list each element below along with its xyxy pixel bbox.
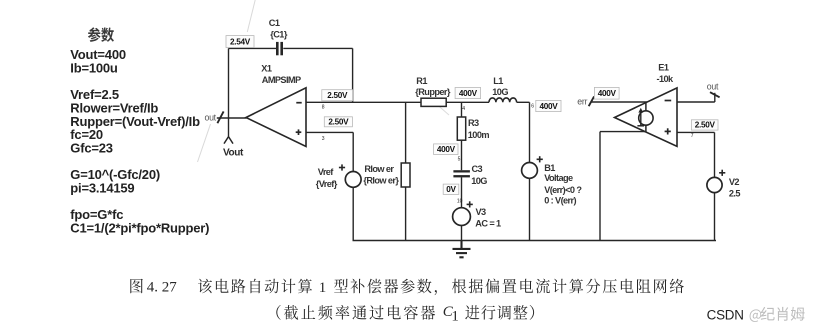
op-amp E1 triangle: [615, 88, 678, 146]
svg-text:AC = 1: AC = 1: [475, 219, 501, 229]
svg-text:400V: 400V: [459, 89, 478, 98]
svg-text:10G: 10G: [471, 176, 487, 186]
svg-text:10G: 10G: [492, 87, 508, 97]
svg-text:V3: V3: [476, 207, 487, 217]
wire E1 - output to out: [677, 101, 715, 103]
node label 400V (after R1): [455, 88, 481, 99]
node label 400V (err node): [594, 87, 619, 99]
wire E1 + to V2 corner: [677, 131, 715, 133]
wire R3 top: [461, 102, 463, 117]
node label 400V (R3 bottom): [434, 144, 458, 155]
Vref + polarity: [339, 164, 345, 170]
wire Vref to rail: [352, 187, 354, 240]
node label 2.50V (E1 + input): [691, 120, 718, 130]
svg-text:{Rlow er}: {Rlow er}: [363, 176, 399, 186]
wire E1 + left segment: [600, 131, 646, 133]
node label 2.54V: [226, 36, 254, 48]
out node tick (X1): [217, 111, 223, 123]
svg-text:R1: R1: [416, 76, 427, 86]
svg-text:AMPSIMP: AMPSIMP: [262, 75, 301, 85]
wire out node vertical: [228, 48, 230, 136]
svg-text:2.54V: 2.54V: [230, 37, 251, 46]
svg-text:Vout: Vout: [223, 147, 244, 158]
caption run 型补偿器参数，: [334, 279, 437, 295]
caption run 根据偏置电流计算分压电阻网络: [452, 279, 684, 294]
V3 + polarity: [467, 201, 473, 207]
node label 2.50V (X1 + input): [324, 117, 352, 127]
Vout port chevron: [224, 137, 233, 144]
wire out riser: [714, 93, 716, 102]
E1 + input symbol: [665, 128, 671, 134]
resistor R1 body: [421, 98, 446, 106]
svg-text:Gfc=23: Gfc=23: [70, 140, 113, 155]
wire err to E1: [592, 101, 649, 103]
scan crease marks: [198, 0, 450, 162]
node label 0V: [443, 184, 459, 194]
wire R3 to C3: [461, 140, 463, 170]
V2 + polarity: [719, 170, 725, 176]
node label 2.50V (X1 - input): [322, 90, 353, 101]
E1 - input symbol: [665, 100, 672, 102]
heading text 参数: [88, 27, 114, 42]
svg-text:2.50V: 2.50V: [327, 91, 348, 100]
wire out node horizontal: [217, 117, 247, 119]
svg-text:1: 1: [451, 309, 459, 325]
svg-text:Voltage: Voltage: [544, 173, 573, 183]
svg-text:5: 5: [458, 156, 461, 162]
source Vref circle: [345, 172, 361, 188]
node label 400V (after L1): [536, 100, 561, 111]
X1 + input symbol: [296, 129, 302, 135]
wire + input down to Vref: [352, 132, 354, 171]
capacitor C3 plates: [453, 170, 470, 177]
watermark 纪肖姆: [761, 307, 805, 321]
svg-text:-10k: -10k: [657, 74, 674, 84]
svg-text:400V: 400V: [539, 102, 558, 111]
svg-text:pi=3.14159: pi=3.14159: [70, 181, 134, 196]
source V2 circle: [707, 177, 722, 192]
svg-text:4. 27: 4. 27: [147, 280, 178, 296]
watermark @: [750, 309, 762, 322]
svg-text:400V: 400V: [598, 89, 617, 98]
wire corner to V2: [714, 132, 716, 177]
svg-text:out: out: [205, 112, 217, 122]
source B1 circle: [522, 163, 538, 179]
svg-text:7: 7: [691, 133, 694, 139]
inductor L1: [489, 98, 517, 102]
svg-text:100m: 100m: [468, 130, 490, 140]
svg-text:C1=1/(2*pi*fpo*Rupper): C1=1/(2*pi*fpo*Rupper): [70, 221, 209, 236]
X1 - input symbol: [296, 102, 301, 104]
svg-text:{Vref}: {Vref}: [316, 179, 338, 189]
caption run （截止频率通过电容器: [276, 305, 435, 320]
svg-text:6: 6: [531, 104, 534, 110]
wire corner down to B1: [529, 102, 531, 162]
wire Rlower top: [405, 102, 407, 163]
svg-text:err: err: [577, 96, 587, 106]
E1 internal vertical: [645, 102, 647, 132]
wire X1 + input: [306, 131, 353, 133]
wire C1 top-right segment: [283, 47, 352, 49]
svg-text:R3: R3: [468, 118, 479, 128]
svg-text:8: 8: [322, 105, 325, 111]
wire L1 to corner: [517, 101, 530, 103]
svg-text:2.50V: 2.50V: [328, 118, 349, 127]
svg-text:B1: B1: [544, 163, 555, 173]
svg-text:C3: C3: [472, 164, 483, 174]
wire V2 to rail: [714, 193, 716, 241]
svg-text:V2: V2: [729, 177, 740, 187]
svg-text:3: 3: [322, 136, 325, 142]
caption run 进行调整）: [465, 305, 534, 320]
svg-text:out: out: [707, 81, 719, 91]
wire X1 - input to main node: [306, 101, 421, 103]
wire bottom rail: [353, 240, 717, 242]
wire V3 to rail: [461, 226, 463, 241]
svg-text:2.5: 2.5: [729, 189, 740, 199]
svg-text:Rlow er: Rlow er: [364, 164, 394, 174]
svg-text:CSDN: CSDN: [707, 307, 744, 322]
svg-text:4: 4: [462, 106, 465, 112]
svg-text:Vref: Vref: [318, 167, 335, 177]
wire R1 to L1: [446, 101, 489, 103]
caption text C1 (italic): [443, 304, 459, 324]
parameter text block: [70, 47, 209, 236]
E1 arrow: [637, 108, 644, 126]
svg-text:L1: L1: [493, 76, 503, 86]
svg-text:{Rupper}: {Rupper}: [415, 87, 451, 97]
wire E1 left down to rail: [599, 132, 601, 241]
out node tick (E1): [710, 92, 720, 97]
svg-text:0V: 0V: [446, 185, 456, 194]
svg-text:{C1}: {C1}: [270, 30, 288, 40]
E1 source circle: [639, 111, 653, 125]
resistor R3 body: [457, 117, 465, 140]
svg-text:2.50V: 2.50V: [695, 121, 716, 130]
wire Rlower to rail: [405, 187, 407, 241]
wire B1 to rail: [529, 178, 531, 240]
resistor Rlower body: [401, 163, 410, 187]
svg-text:10: 10: [457, 198, 463, 204]
svg-text:C1: C1: [269, 18, 280, 28]
svg-text:E1: E1: [658, 63, 669, 73]
B1 + polarity: [537, 156, 543, 162]
svg-text:Ib=100u: Ib=100u: [70, 60, 118, 75]
wire C3 to V3: [461, 177, 463, 207]
svg-text:0 : V(err): 0 : V(err): [544, 196, 576, 206]
ground symbol: [453, 241, 471, 258]
err node tick: [589, 96, 594, 106]
svg-text:400V: 400V: [437, 145, 456, 154]
wire C1 top-left segment: [229, 47, 277, 49]
op-amp X1 triangle: [246, 88, 306, 147]
svg-text:V(err)<0 ?: V(err)<0 ?: [544, 185, 582, 195]
caption char 图: [130, 279, 143, 293]
source V3 circle: [453, 208, 471, 226]
svg-text:1: 1: [319, 280, 327, 296]
wire feedback vertical (C1 to X1 - input): [352, 48, 354, 102]
svg-text:X1: X1: [261, 63, 272, 73]
capacitor C1 plates: [276, 42, 283, 55]
pin numbers: [322, 104, 694, 205]
caption run 该电路自动计算: [198, 279, 312, 294]
